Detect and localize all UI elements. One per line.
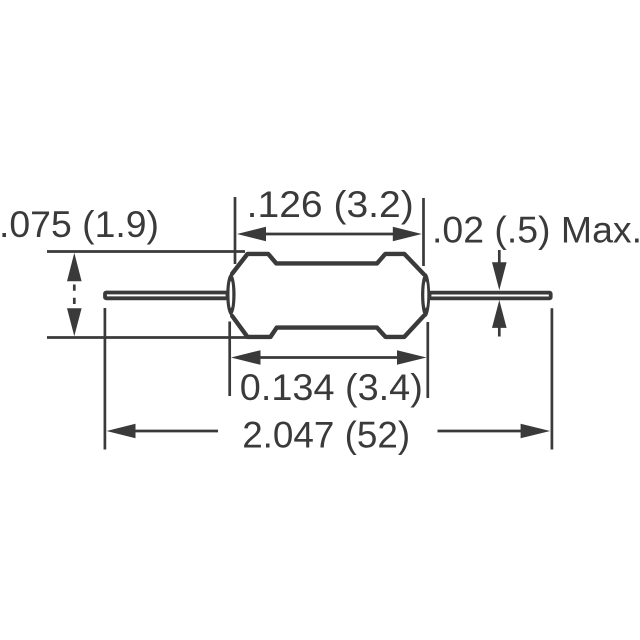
- resistor body top outline: [232, 254, 423, 274]
- dim .02: down arrowhead to lead top: [492, 262, 507, 290]
- dim .02: down arrow shaft above lead: [498, 250, 501, 263]
- dim 0.134: left extension line: [228, 322, 231, 397]
- wire lead left (L1): [105, 293, 228, 299]
- dim .126: left extension line: [234, 197, 237, 264]
- dim .075: bottom extension line: [47, 336, 247, 339]
- dim .075: dashed shaft: [73, 285, 76, 305]
- svg-text:.075 (1.9): .075 (1.9): [0, 204, 159, 245]
- dim .075: up arrowhead: [67, 253, 82, 281]
- dim 2.047: left shaft segment: [133, 430, 218, 433]
- dim .126: right arrowhead: [393, 227, 422, 242]
- dim .126: right extension line: [422, 198, 425, 266]
- dim .075: down arrowhead: [67, 308, 82, 336]
- dim .02: up arrow shaft below lead: [498, 327, 501, 337]
- svg-text:.02 (.5) Max.: .02 (.5) Max.: [432, 210, 640, 251]
- dim .126: left arrowhead: [237, 227, 266, 242]
- resistor body right end cap ellipse: [421, 273, 430, 317]
- resistor body bottom outline: [232, 316, 423, 337]
- dim .02: up arrowhead to lead bottom: [492, 300, 507, 328]
- dim .126: dimension line shaft: [262, 233, 396, 236]
- svg-text:.126 (3.2): .126 (3.2): [247, 184, 414, 225]
- dim 0.134: right arrowhead: [397, 350, 427, 365]
- dim 2.047: right extension line: [551, 308, 554, 449]
- resistor body left end cap ellipse: [226, 274, 235, 316]
- dim 2.047: right shaft segment: [438, 430, 523, 433]
- dim .075: top extension line: [47, 250, 245, 253]
- dim 2.047: left extension line: [104, 308, 107, 450]
- svg-text:0.134 (3.4): 0.134 (3.4): [240, 367, 423, 408]
- svg-text:2.047 (52): 2.047 (52): [242, 414, 410, 455]
- dim 2.047: right arrowhead: [521, 424, 551, 439]
- dim 0.134: dimension line shaft: [258, 356, 399, 359]
- dim 0.134: left arrowhead: [231, 350, 261, 365]
- wire lead right (L2): [430, 293, 551, 299]
- dim 0.134: right extension line: [426, 322, 429, 398]
- dim 2.047: left arrowhead: [107, 424, 136, 439]
